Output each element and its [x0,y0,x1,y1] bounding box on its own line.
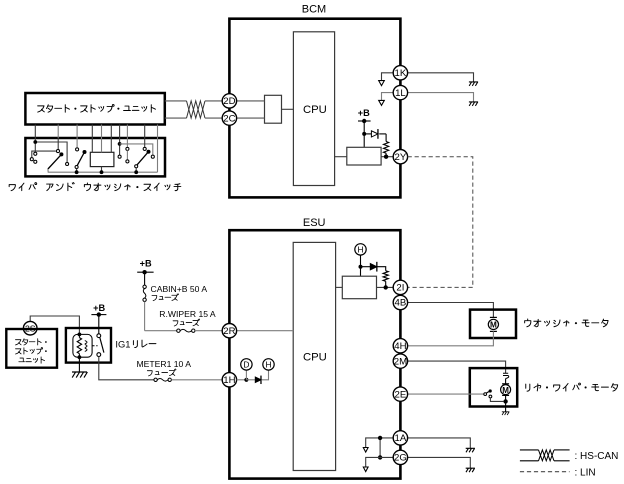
fuse F2 R.WIPER 15A [177,329,180,332]
switch S1 contact c [34,160,37,163]
svg-text:2M: 2M [394,356,407,367]
wire relay to METER1 fuse to 1H [99,357,154,380]
wiper motor ground G5 [505,403,507,411]
BCM box U-BCM [229,19,400,198]
resistor R1 [385,134,387,142]
connector 2R [222,324,236,338]
start-stop unit box (top) [25,93,164,125]
switch S2 contact a [76,138,78,148]
wire 1H to diode D3 [237,379,247,381]
driver block in ESU [342,276,376,299]
svg-text:: HS-CAN: : HS-CAN [575,451,619,462]
resistor R2 [376,267,385,271]
arrow to ground 1L internal [379,100,385,105]
washer motor M1 [490,316,497,318]
switch common wire [48,169,158,172]
node D circle [245,370,247,380]
wire +B to diode junction [363,121,365,147]
connector 2S wire to relay [30,316,79,334]
wire 2D to interface [229,100,264,102]
svg-text:2D: 2D [223,96,235,107]
svg-text:D: D [243,359,249,369]
switch S1 contact a [66,162,69,165]
connector 1K with wires [382,73,394,81]
driver block in BCM [347,147,381,165]
wire 1A internal with arrow [366,438,394,448]
wire driver to 2Y with junction [381,156,393,158]
switch S3 contact c [144,138,146,147]
connector 1H [222,373,236,387]
washer motor box [470,310,516,338]
svg-text:METER1 10 A: METER1 10 A [137,359,192,369]
connector 2E [393,387,407,401]
relay coil [73,334,92,357]
connector 2C [222,111,236,125]
wire 2E to park switch [408,393,484,395]
connector 2D [222,94,236,108]
svg-text:CPU: CPU [303,351,327,363]
wire CPU to driver [335,156,347,158]
svg-text:+B: +B [140,259,152,269]
svg-text:4B: 4B [395,298,407,309]
label wiper-and-washer-switch katakana [9,182,181,190]
LIN dashed wire 2Y to 2I [408,157,473,288]
switch S3 link wire [120,144,153,155]
IG1 relay box K1 [66,328,111,363]
ground G1 [469,82,478,86]
wire CPU to ESU driver [336,286,343,288]
arrow to ground 1K internal [379,81,385,86]
washer block stem to common [101,167,103,173]
connector 4B wire to washer motor [408,303,494,318]
CPU block in ESU [293,242,335,470]
svg-text:1A: 1A [395,433,407,444]
switch unit drop wires [34,125,36,139]
wire 1L to ground G2 [408,93,474,102]
ground G2 [469,102,478,106]
CAN interface block [265,95,282,123]
svg-text:M: M [490,321,497,330]
diode D3 (filled) [246,379,255,381]
relay switch contacts [97,334,101,338]
washer switch block rectangle [90,152,114,166]
svg-text:2Y: 2Y [395,152,407,163]
wire interface-CPU [282,108,294,110]
label start-stop-unit katakana [38,104,156,112]
switch S3 contact pair [126,138,128,147]
breaker in wiper motor [503,373,509,378]
relay coupling dashes [92,345,97,347]
ground G3 [466,448,475,452]
connector 2G [393,450,407,464]
rear wiper motor M2 [502,383,509,385]
rear wiper motor box [470,368,517,406]
svg-text:1L: 1L [395,88,406,99]
wire 2G internal with arrow [366,457,394,467]
switch S1 wiper group wiring [34,138,36,152]
label start-stop-unit small katakana [15,339,46,345]
connector 2M wire to wiper motor [408,361,506,373]
svg-text:2R: 2R [223,326,235,337]
svg-text:R.WIPER 15 A: R.WIPER 15 A [159,309,216,319]
svg-text:4H: 4H [394,341,406,352]
svg-text:2I: 2I [396,283,404,294]
fuse F1 CABIN+B 50A [144,272,146,285]
wiper and washer switch box [25,138,165,176]
relay driver H circle in ESU [360,255,362,276]
switch S2 contact b to common [75,165,78,168]
fuse F3 METER1 10A [154,378,157,381]
switch S3 contact feed with junction [119,138,121,155]
wire 1A to ground G3 [408,438,471,448]
ESU box U-ESU [229,230,400,478]
switch S1 contact d with bent lead [32,151,56,158]
wire fuse to 2R [145,330,177,332]
svg-text:: LIN: : LIN [575,467,596,478]
legend HS-CAN symbol [520,449,539,451]
connector 2I [393,280,407,294]
junction 1A-2G tie [379,438,381,458]
relay coil ground G6 [78,357,80,371]
switch S2 arm [77,152,84,166]
HS-CAN twisted pair wires to 2D/2C [165,100,187,102]
wire 2R to CPU [237,330,294,332]
node H circle [262,370,269,380]
svg-text:CPU: CPU [303,104,327,116]
svg-text:IG1: IG1 [115,339,130,350]
svg-text:+B: +B [358,108,370,118]
park switch in wiper motor [484,393,487,396]
svg-text:BCM: BCM [302,3,326,15]
svg-text:H: H [357,244,363,254]
switch S1 arm [48,154,62,169]
diode D1 (open) [364,133,371,135]
legend LIN dashed symbol [520,471,570,473]
svg-text:2C: 2C [223,113,235,124]
wire 2C to interface [229,117,264,119]
connector 1A [393,431,407,445]
wires into washer block [91,138,93,152]
switch S1 contact e [57,138,59,150]
connector 4H [393,339,407,353]
svg-text:H: H [265,359,271,369]
connector 2S [23,321,37,335]
svg-text:2E: 2E [395,389,407,400]
connector 2M [393,354,407,368]
svg-text:M: M [502,386,509,395]
switch S3 arm [137,152,149,165]
svg-text:2G: 2G [394,453,407,464]
label washer motor katakana [525,319,608,327]
svg-text:CABIN+B 50 A: CABIN+B 50 A [151,284,208,294]
ground G4 [466,468,475,472]
wire 1K to ground G1 [408,73,474,82]
svg-text:ESU: ESU [303,217,326,229]
svg-text:1H: 1H [223,375,235,386]
label rear wiper motor katakana [526,383,618,391]
svg-text:+B: +B [93,303,105,313]
start-stop unit box (small) [6,329,57,368]
wire washer motor to 4H [408,331,494,345]
connector 2Y [393,150,407,164]
svg-text:1K: 1K [395,68,407,79]
CPU block in BCM [293,32,334,186]
connector 4B [393,295,407,309]
connector 1L with wires [382,93,394,101]
wire driver to 2I with junction [377,286,394,288]
diode D2 (filled) [361,266,371,268]
switch S1 contact b [34,152,37,155]
wire 2G to ground G4 [408,457,471,468]
